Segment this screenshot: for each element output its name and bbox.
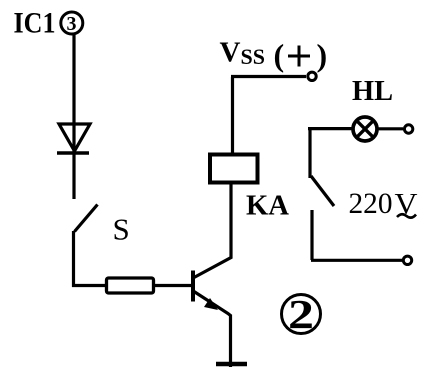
svg-text:220: 220 <box>349 187 393 220</box>
svg-text:): ) <box>317 37 328 73</box>
svg-text:IC1: IC1 <box>14 7 56 40</box>
svg-text:3: 3 <box>67 13 77 35</box>
svg-text:2: 2 <box>288 291 314 337</box>
svg-text:S: S <box>113 212 130 247</box>
svg-text:HL: HL <box>352 76 393 107</box>
svg-text:(: ( <box>274 37 285 73</box>
svg-text:KA: KA <box>246 190 289 222</box>
